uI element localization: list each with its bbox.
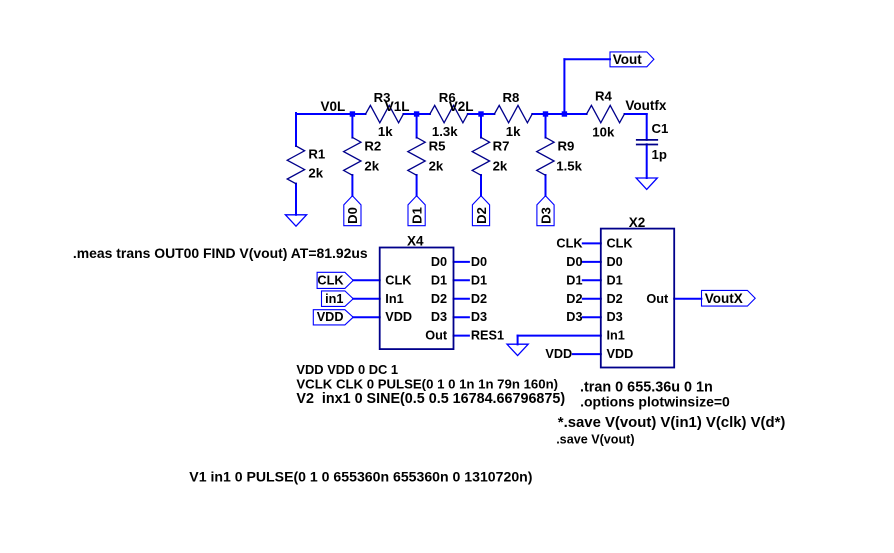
svg-text:RES1: RES1 — [471, 329, 504, 343]
svg-text:VDD: VDD — [545, 347, 572, 361]
svg-text:D2: D2 — [607, 292, 623, 306]
wire X2 D1 stub — [583, 279, 601, 281]
node R9 top junction — [543, 111, 548, 116]
svg-text:R4: R4 — [595, 88, 613, 103]
wire R7 bottom — [480, 175, 482, 196]
svg-text:1k: 1k — [506, 124, 521, 139]
wire X2 CLK stub — [583, 242, 601, 244]
svg-text:D2: D2 — [431, 292, 447, 306]
port flag D0 — [344, 196, 361, 226]
svg-text:Out: Out — [646, 292, 669, 306]
svg-text:10k: 10k — [592, 124, 615, 139]
svg-text:1.5k: 1.5k — [556, 159, 582, 174]
port flag Vout — [610, 52, 654, 67]
svg-text:D0: D0 — [566, 255, 582, 269]
wire C1 top — [646, 114, 648, 140]
svg-text:D3: D3 — [566, 310, 582, 324]
resistor R4 — [587, 105, 625, 122]
svg-text:*.save V(vout) V(in1) V(clk) V: *.save V(vout) V(in1) V(clk) V(d*) — [558, 415, 786, 431]
svg-text:V0L: V0L — [321, 99, 346, 114]
wire X4 D0 stub — [454, 261, 469, 263]
svg-text:In1: In1 — [385, 292, 403, 306]
wire R5 top — [416, 114, 418, 138]
svg-text:R9: R9 — [558, 139, 575, 154]
wire X2 D2 stub — [583, 298, 601, 300]
svg-text:VDD: VDD — [317, 310, 344, 324]
svg-text:VCLK CLK 0 PULSE(0 1 0 1n 1n 7: VCLK CLK 0 PULSE(0 1 0 1n 1n 79n 160n) — [296, 377, 558, 392]
svg-text:.save V(vout): .save V(vout) — [556, 433, 634, 447]
svg-text:D3: D3 — [471, 310, 487, 324]
ground under C1 — [636, 178, 657, 189]
svg-text:D0: D0 — [431, 255, 447, 269]
resistor R7 body — [472, 137, 489, 175]
svg-text:VDD: VDD — [385, 310, 412, 324]
resistor R2 body — [344, 137, 361, 175]
wire R9 bottom — [545, 175, 547, 196]
svg-text:V1 in1 0 PULSE(0 1 0 655360n 6: V1 in1 0 PULSE(0 1 0 655360n 655360n 0 1… — [189, 468, 532, 484]
svg-text:R5: R5 — [429, 139, 446, 154]
node V2L junction — [478, 111, 483, 116]
wire R5 bottom — [416, 175, 418, 196]
wire V0L-V1L lead — [403, 113, 430, 115]
svg-text:CLK: CLK — [385, 273, 412, 287]
wire X2 D3 stub — [583, 316, 601, 318]
svg-text:R2: R2 — [364, 139, 381, 154]
wire V0L net horizontal — [296, 113, 366, 115]
svg-text:in1: in1 — [325, 292, 343, 306]
wire C1 bottom — [646, 144, 648, 178]
svg-text:1p: 1p — [652, 147, 667, 162]
svg-text:1.3k: 1.3k — [432, 124, 458, 139]
resistor R8 — [494, 105, 532, 122]
port flag D2 — [472, 196, 489, 226]
port flag D1 — [408, 196, 425, 226]
wire X2 D0 stub — [583, 261, 601, 263]
svg-text:D2: D2 — [474, 207, 489, 224]
svg-text:VoutX: VoutX — [705, 291, 743, 306]
port flag VoutX — [702, 290, 756, 306]
svg-text:Vout: Vout — [613, 52, 642, 67]
svg-text:R8: R8 — [503, 90, 520, 105]
svg-text:D3: D3 — [431, 310, 447, 324]
wire X4 D1 stub — [454, 279, 469, 281]
svg-text:D1: D1 — [431, 273, 447, 287]
svg-text:2k: 2k — [364, 159, 379, 174]
svg-text:In1: In1 — [607, 329, 625, 343]
wire R4 to Voutfx — [625, 113, 647, 115]
svg-text:Out: Out — [425, 329, 448, 343]
svg-text:D1: D1 — [471, 273, 487, 287]
wire X2 In1 net — [518, 335, 601, 337]
wire V1L-V2L lead — [468, 113, 495, 115]
svg-text:D0: D0 — [345, 207, 360, 224]
svg-text:D1: D1 — [409, 207, 424, 224]
port flag in1 — [322, 291, 354, 307]
capacitor C1 — [637, 140, 657, 145]
node V0L junction — [350, 111, 355, 116]
ground at X2 In1 — [507, 344, 528, 355]
svg-text:2k: 2k — [308, 165, 323, 180]
svg-text:1k: 1k — [378, 124, 393, 139]
wire R7 top — [480, 114, 482, 138]
port flag VDD — [313, 310, 353, 325]
wire in1 port to X4 — [353, 298, 380, 300]
wire V2L node to R4 — [532, 113, 586, 115]
svg-text:V2 inx1 0 SINE(0.5 0.5 16784.: V2 inx1 0 SINE(0.5 0.5 16784.66796875) — [296, 391, 565, 407]
svg-text:D0: D0 — [471, 255, 487, 269]
svg-text:.options plotwinsize=0: .options plotwinsize=0 — [580, 394, 730, 410]
svg-text:C1: C1 — [652, 121, 669, 136]
wire In1 ground drop — [517, 336, 519, 345]
svg-text:CLK: CLK — [317, 273, 344, 287]
resistor R3 — [366, 105, 404, 122]
wire R1 top — [295, 113, 297, 146]
node Vout tap junction — [562, 111, 567, 116]
svg-text:R6: R6 — [439, 90, 456, 105]
svg-text:D3: D3 — [538, 207, 553, 224]
resistor R9 body — [537, 137, 554, 175]
svg-text:VDD: VDD — [607, 347, 634, 361]
wire X2 VDD stub — [573, 353, 601, 355]
svg-text:Voutfx: Voutfx — [625, 98, 666, 113]
svg-text:R7: R7 — [493, 139, 510, 154]
svg-text:CLK: CLK — [607, 236, 634, 250]
subcircuit X2 box — [601, 229, 674, 368]
svg-text:R1: R1 — [308, 146, 325, 161]
svg-text:D2: D2 — [471, 292, 487, 306]
svg-text:D1: D1 — [566, 273, 582, 287]
wire X4 Out stub — [454, 335, 469, 337]
wire R1 bottom — [295, 184, 297, 215]
resistor R6 — [430, 105, 468, 122]
resistor R5 body — [408, 137, 425, 175]
svg-text:VDD VDD 0 DC 1: VDD VDD 0 DC 1 — [296, 362, 398, 377]
resistor R1 — [287, 146, 304, 184]
wire Vout tap vertical — [563, 59, 565, 114]
svg-text:D1: D1 — [607, 273, 623, 287]
svg-text:R3: R3 — [374, 90, 391, 105]
svg-text:CLK: CLK — [556, 236, 583, 250]
ground under R1 — [285, 215, 306, 226]
port flag D3 — [537, 196, 554, 226]
subcircuit X4 box — [380, 248, 454, 350]
wire X2 Out stub — [674, 298, 701, 300]
svg-text:.meas trans OUT00 FIND V(vout): .meas trans OUT00 FIND V(vout) AT=81.92u… — [73, 245, 368, 261]
port flag CLK — [317, 272, 353, 288]
wire X4 D3 stub — [454, 316, 469, 318]
wire R2 top — [351, 114, 353, 138]
svg-text:D3: D3 — [607, 310, 623, 324]
node V1L junction — [414, 111, 419, 116]
svg-text:D0: D0 — [607, 255, 623, 269]
svg-text:X2: X2 — [629, 215, 646, 230]
wire Vout tap horizontal — [564, 58, 610, 60]
wire VDD port to X4 — [353, 316, 380, 318]
svg-text:2k: 2k — [429, 159, 444, 174]
svg-text:X4: X4 — [407, 233, 424, 248]
wire CLK port to X4 — [353, 279, 380, 281]
wire X4 D2 stub — [454, 298, 469, 300]
wire R9 top — [545, 114, 547, 138]
svg-text:2k: 2k — [493, 159, 508, 174]
svg-text:D2: D2 — [566, 292, 582, 306]
wire R2 bottom — [351, 175, 353, 196]
